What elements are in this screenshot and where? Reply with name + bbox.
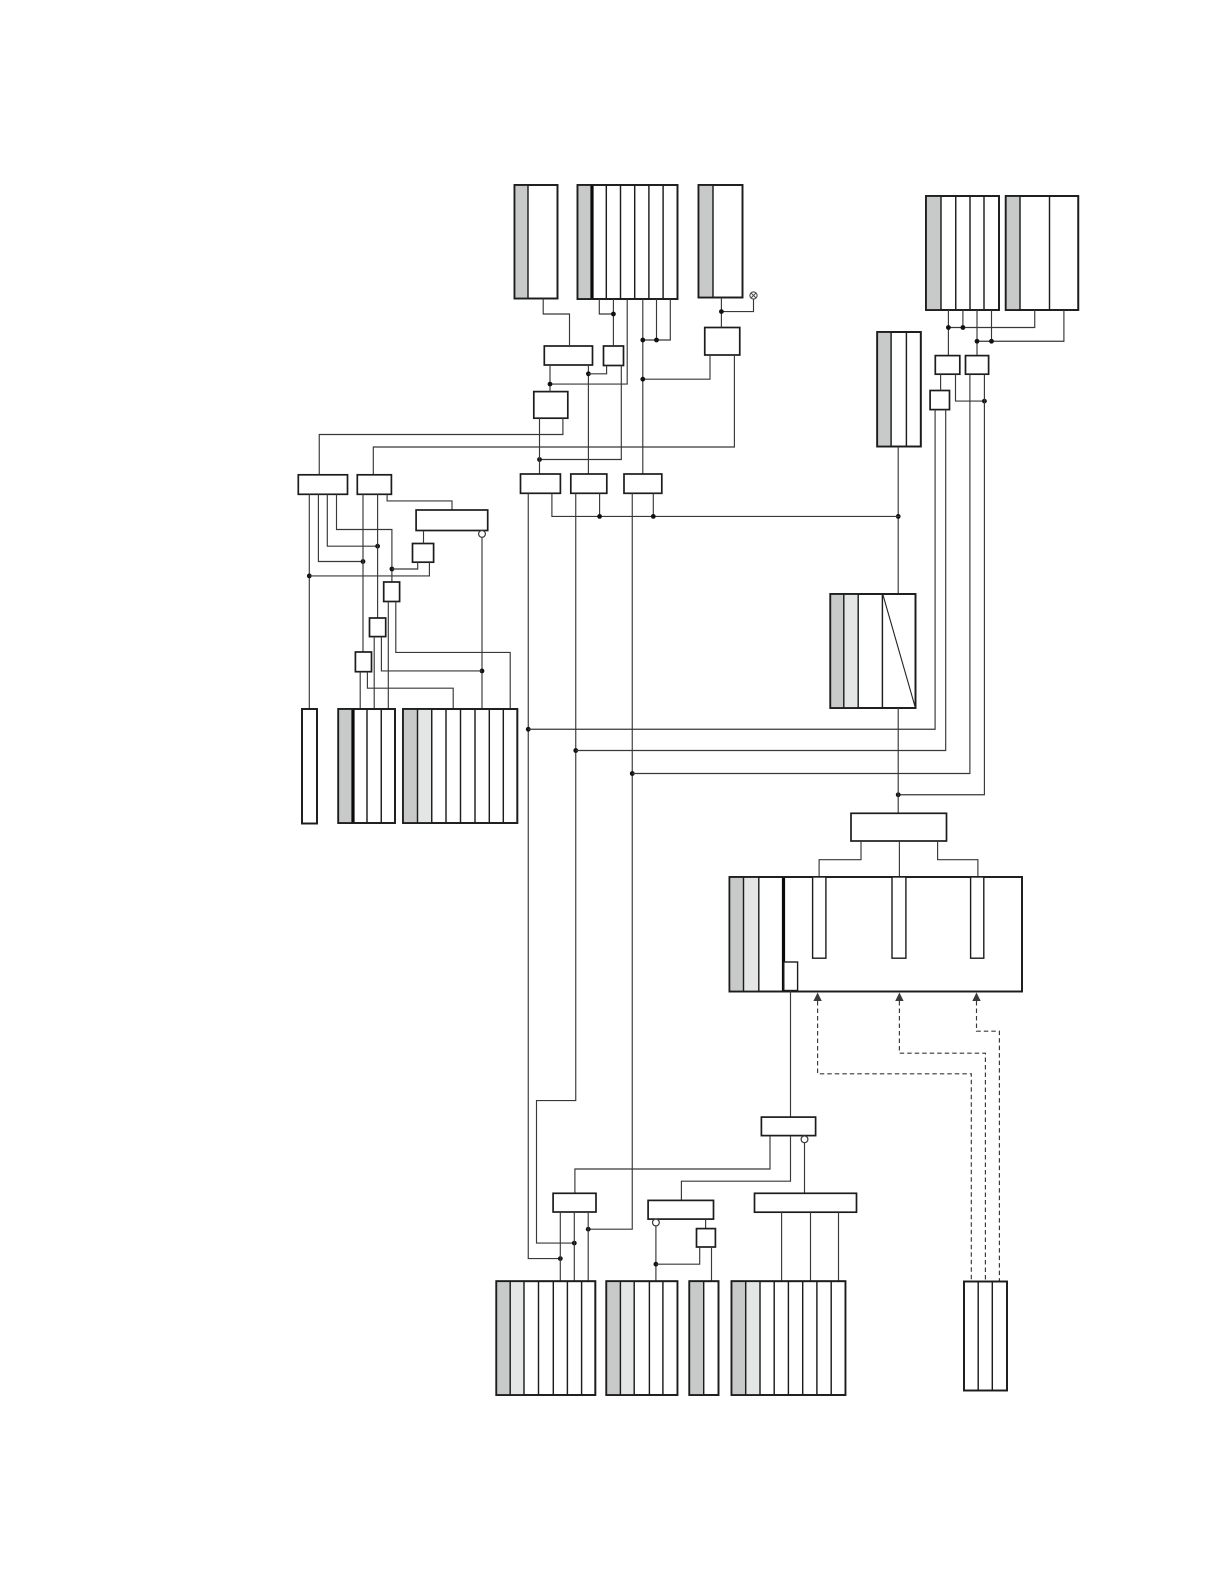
- wire box B pin1 long: [632, 374, 970, 773]
- wire L2 pin3 to L3: [387, 494, 452, 510]
- wire T4 left pin to M1: [539, 418, 541, 474]
- wire L1 pin3: [327, 494, 377, 546]
- relay box C: [930, 391, 949, 410]
- junction box SB: [697, 1229, 716, 1247]
- wire circle to block B: [655, 1226, 657, 1281]
- wire SB pin1: [656, 1247, 700, 1264]
- wire T3 left pin: [643, 355, 710, 379]
- junction box TR: [761, 1117, 815, 1136]
- wire BB sub-connector down to TR: [790, 991, 792, 1118]
- wire JB leg2: [898, 841, 900, 877]
- connector block R (with diagonal link): [830, 594, 915, 708]
- junction dot: [586, 1227, 591, 1232]
- wire J2 pin1 to node: [599, 299, 613, 314]
- wire T1 right pin to M2: [587, 365, 589, 474]
- connector circle under MB: [653, 1219, 660, 1226]
- wire J4 pin3 to box B: [976, 310, 978, 356]
- junction box L3 (wide): [416, 510, 488, 531]
- relay box A: [935, 356, 960, 375]
- wire J2 pin6 branch: [643, 299, 671, 340]
- connector block P (8-cavity): [403, 709, 517, 823]
- junction box S1: [413, 544, 434, 563]
- junction dot: [982, 399, 987, 404]
- wire J4 pin2 stub: [962, 310, 964, 328]
- wire J4 pin1 to box A: [947, 310, 949, 356]
- connector block D (bottom, 8-cavity): [732, 1281, 846, 1395]
- connector block J3 (top): [699, 185, 743, 298]
- connector block J5 (top-right): [1006, 196, 1079, 310]
- wire J4 pin4 stub: [991, 310, 993, 341]
- wire L1 pin4 to S2: [337, 494, 392, 582]
- wire BD leg3 to block D: [838, 1212, 840, 1281]
- wire M2 pin2 to bus: [599, 493, 601, 516]
- sub-connector inside BB: [784, 962, 798, 991]
- wire S4 left pin to block M: [359, 672, 361, 709]
- dashed wire 3 to block E: [977, 1001, 1000, 1281]
- wire T5 pin down: [897, 447, 899, 595]
- wire M1 pin1 long down: [528, 493, 560, 1258]
- wire BA leg2 to block A: [573, 1212, 575, 1281]
- wire circle to BD: [804, 1143, 806, 1194]
- junction dot: [896, 514, 901, 519]
- dashed arrow head 2 into BB: [895, 993, 903, 1002]
- junction box BD: [755, 1193, 857, 1212]
- junction box M3: [624, 474, 662, 493]
- junction dot: [654, 338, 659, 343]
- junction box M2: [571, 474, 607, 493]
- junction box L1: [298, 475, 347, 495]
- wire JB leg1: [819, 841, 861, 877]
- wire BA leg1 to block A: [559, 1212, 561, 1281]
- wire TR leg1 to BA: [575, 1136, 770, 1194]
- junction box T4: [534, 392, 568, 419]
- connector block J4 (top-right): [926, 196, 999, 310]
- junction dot: [975, 339, 980, 344]
- junction box BA: [553, 1193, 596, 1212]
- junction dot: [375, 544, 380, 549]
- connector block J2 (top, 7-cavity): [578, 185, 678, 299]
- junction dot: [548, 382, 553, 387]
- wire L2 pin2 to S3: [377, 494, 379, 618]
- junction block BB (large): [729, 877, 1022, 992]
- junction box T1: [544, 346, 592, 365]
- junction box T3: [705, 328, 740, 356]
- connector block M (4-cavity): [338, 709, 395, 823]
- junction dot: [719, 309, 724, 314]
- wire T2 left pin: [588, 366, 606, 374]
- junction dot: [558, 1256, 563, 1261]
- wire M3 pin2 to bus: [652, 493, 654, 516]
- wire L3 to S1: [423, 531, 425, 544]
- wire box C pin2 long: [576, 410, 946, 751]
- junction box MB: [648, 1200, 713, 1219]
- wire S2 right pin to block P: [396, 602, 510, 710]
- wire block R to JB: [897, 708, 899, 813]
- wire L1 pin1 to block N: [308, 494, 310, 709]
- wire L1 pin2: [318, 494, 363, 561]
- wire JB leg3: [938, 841, 978, 877]
- wire J5 pin1 branch: [948, 310, 1034, 328]
- junction dot: [989, 339, 994, 344]
- wire S3 left pin to block M: [373, 637, 375, 709]
- dashed arrow head 1 into BB: [813, 993, 821, 1002]
- wire M2 pin1 long down: [537, 493, 576, 1243]
- wire S4 right pin to block P: [367, 672, 453, 709]
- wire MB pin to SB: [705, 1219, 707, 1229]
- wire J3 pin to T3: [720, 298, 722, 328]
- junction box M1: [521, 474, 561, 493]
- wire T4 right pin to L1: [319, 418, 563, 475]
- wire box A to box C: [940, 374, 942, 390]
- wire box C pin1 long: [528, 410, 935, 730]
- wire TR leg2 to MB: [681, 1136, 790, 1201]
- connector circle under L3: [479, 531, 486, 538]
- junction dot: [307, 574, 312, 579]
- junction dot: [480, 669, 485, 674]
- junction dot: [640, 377, 645, 382]
- junction box S2: [384, 582, 400, 602]
- wire J5 pin2 branch: [977, 310, 1064, 341]
- connector circle under TR: [801, 1136, 808, 1143]
- junction dot: [946, 325, 951, 330]
- junction dot: [896, 792, 901, 797]
- wire J2 pin2 to T2: [612, 299, 614, 346]
- junction dot: [611, 312, 616, 317]
- wire box A pin2 branch: [956, 374, 985, 401]
- wire S1 right pin: [309, 562, 429, 576]
- connector block T5 (tall narrow): [877, 332, 921, 447]
- wire BD leg2 to block D: [810, 1212, 812, 1281]
- junction dot: [597, 514, 602, 519]
- wire M3 pin1 long down: [588, 493, 632, 1229]
- wire S2 left pin to block M: [387, 602, 389, 710]
- wire box B pin2 long: [898, 374, 984, 795]
- junction dot: [572, 1241, 577, 1246]
- wire S3 right pin: [381, 637, 482, 671]
- connector block C (bottom, 2-cavity): [689, 1281, 718, 1395]
- wire L2 pin1 to S4: [362, 494, 364, 652]
- connector block E (bottom-right, 3-cavity): [964, 1282, 1007, 1391]
- junction box S4: [355, 652, 371, 672]
- junction dot: [630, 771, 635, 776]
- fuse slot 1 inside BB: [813, 877, 826, 958]
- indicator lamp symbol: [750, 292, 757, 299]
- fuse slot 3 inside BB: [971, 877, 984, 958]
- junction dot: [586, 371, 591, 376]
- wire M1 pin2 bus: [552, 493, 900, 516]
- wire from circle to block P: [481, 537, 483, 709]
- junction dot: [961, 325, 966, 330]
- dashed wire 1 to block E: [818, 1001, 972, 1281]
- junction dot: [361, 559, 366, 564]
- junction box L2: [357, 475, 391, 495]
- wire T2 right pin: [540, 366, 622, 460]
- junction dot: [651, 514, 656, 519]
- connector block J1 (top-left): [515, 185, 558, 299]
- junction dot: [390, 567, 395, 572]
- connector block A (bottom, 7-cavity): [496, 1281, 595, 1395]
- wire BA leg3 to block A: [587, 1212, 589, 1281]
- connector block N (single cavity): [302, 709, 317, 824]
- wire J2 pin3 branch: [550, 299, 627, 384]
- junction dot: [640, 338, 645, 343]
- wire lamp to node: [721, 299, 753, 312]
- dashed arrow head 3 into BB: [972, 993, 980, 1002]
- relay box B: [966, 356, 989, 375]
- wire J2 pin5 stub: [656, 299, 658, 340]
- wire T1 left pin to T4: [549, 365, 551, 392]
- wire J1 pin to T1: [543, 299, 569, 347]
- junction dot: [573, 748, 578, 753]
- junction dot: [526, 727, 531, 732]
- dashed wire 2 to block E: [899, 1001, 985, 1281]
- wire SB pin2 to block C: [711, 1247, 713, 1281]
- wire BD leg1 to block D: [781, 1212, 783, 1281]
- wire J2 pin4 to M3: [642, 299, 644, 474]
- junction dot: [654, 1262, 659, 1267]
- connector block B (bottom, 5-cavity): [606, 1281, 677, 1395]
- wire S1 left pin: [392, 562, 418, 569]
- junction dot: [537, 457, 542, 462]
- wire T3 right pin to L2: [373, 355, 734, 475]
- junction box S3: [370, 618, 386, 637]
- junction box JB: [851, 813, 947, 841]
- fuse slot 2 inside BB: [892, 877, 906, 958]
- junction box T2: [604, 346, 624, 366]
